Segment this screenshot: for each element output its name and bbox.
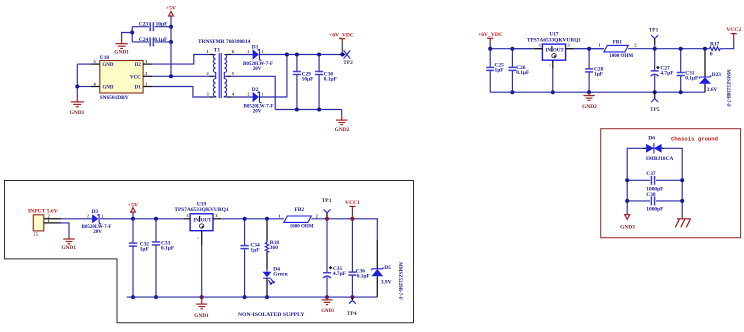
svg-text:OUT: OUT xyxy=(201,219,213,224)
node TP3/C35 xyxy=(325,217,329,221)
ground GND1 (near C23) xyxy=(114,39,129,56)
node C35 bottom xyxy=(325,295,329,299)
node +6V junction xyxy=(340,53,344,57)
svg-text:0.1µF: 0.1µF xyxy=(357,274,371,280)
svg-text:SMBJ18CA: SMBJ18CA xyxy=(646,156,674,162)
node C26 top xyxy=(510,47,514,51)
svg-text:TRNSFMR 760390014: TRNSFMR 760390014 xyxy=(198,39,251,45)
capacitor C33 0.1uF xyxy=(152,219,175,297)
svg-text:10µF: 10µF xyxy=(302,76,314,82)
svg-text:1: 1 xyxy=(262,50,264,54)
node C29 top xyxy=(295,53,299,57)
node C31 bottom xyxy=(679,90,683,94)
svg-text:1000 OHM: 1000 OHM xyxy=(609,54,633,59)
node C26 bottom xyxy=(510,90,514,94)
diode D2 B0520LW-7-F xyxy=(231,55,287,115)
svg-text:0.1µF: 0.1µF xyxy=(154,37,168,43)
svg-text:0.1µF: 0.1µF xyxy=(161,246,175,252)
wire U18 pin1 to T1 pin3 xyxy=(152,87,210,98)
node C28 bottom xyxy=(587,90,591,94)
zener D23 MMSZ5228B-7-F 3.6V xyxy=(699,49,730,107)
capacitor C37 1000pF xyxy=(627,171,682,193)
wire U17 gnd down xyxy=(552,69,554,93)
svg-text:U18: U18 xyxy=(100,55,110,61)
svg-text:TP3: TP3 xyxy=(322,198,332,204)
svg-text:20V: 20V xyxy=(253,67,262,72)
node D23 top xyxy=(703,47,707,51)
capacitor C35 4.7uF polarized xyxy=(323,219,347,297)
pin 3 U19 xyxy=(213,218,221,220)
pin 1 J5 xyxy=(44,222,61,224)
pin 2 U17 gnd xyxy=(552,60,554,68)
node D4 bottom xyxy=(265,295,269,299)
pin 2 U18 xyxy=(143,75,152,77)
svg-text:GND: GND xyxy=(102,86,114,91)
node C27 bottom xyxy=(653,90,657,94)
node link/gnd junction xyxy=(130,31,134,35)
wire FB1 out xyxy=(628,48,709,50)
svg-text:MMSZ5228B-7-F: MMSZ5228B-7-F xyxy=(725,69,730,107)
svg-text:NON-ISOLATED SUPPLY: NON-ISOLATED SUPPLY xyxy=(238,312,305,318)
svg-text:GND3: GND3 xyxy=(620,225,635,231)
svg-text:J5: J5 xyxy=(34,232,39,238)
pin 1 U18 xyxy=(143,86,152,88)
power port +5V (non-isolated) xyxy=(128,203,138,219)
svg-text:Green: Green xyxy=(273,272,287,278)
svg-text:1µF: 1µF xyxy=(140,247,150,253)
node C30 top xyxy=(317,53,321,57)
svg-text:10µF: 10µF xyxy=(156,22,168,28)
resistor R17 0 xyxy=(709,41,720,57)
capacitor C25 1uF xyxy=(486,49,504,92)
wire +5V vertical rail xyxy=(170,16,172,76)
capacitor C30 0.1uF xyxy=(315,55,338,110)
svg-text:TP1: TP1 xyxy=(649,27,659,33)
box outline non-isolated supply xyxy=(5,181,414,323)
pin 1 U17 xyxy=(535,48,543,50)
node R18 top xyxy=(265,217,269,221)
node C33 bottom xyxy=(154,295,158,299)
ground GND2 (rectifier) xyxy=(335,110,350,133)
svg-text:1µF: 1µF xyxy=(594,72,604,78)
ground GND1 (under U18) xyxy=(70,97,85,116)
ground GND1 (under C35) xyxy=(321,297,335,314)
capacitor C23 10uF xyxy=(132,22,171,32)
power port VCC2 xyxy=(726,27,741,41)
node C33 top xyxy=(154,217,158,221)
regulator U17 TPS7A6533QKVURQ1 xyxy=(527,32,582,61)
wire D6 right xyxy=(665,148,683,219)
test point TP4 xyxy=(347,297,357,317)
box chassis ground xyxy=(601,129,741,238)
wire U18 pin3 to T1 pin1 xyxy=(152,55,210,65)
wire FB2 out xyxy=(311,219,377,240)
wire D6 left xyxy=(627,148,643,214)
svg-text:FB2: FB2 xyxy=(295,207,305,213)
resistor R18 360 xyxy=(265,219,279,252)
svg-text:Chassis ground: Chassis ground xyxy=(671,136,718,143)
power port +6V_VDC (input) xyxy=(478,32,503,49)
node U19 gnd xyxy=(200,295,204,299)
capacitor C36 0.1uF xyxy=(348,219,370,297)
capacitor C29 10uF xyxy=(293,55,314,110)
svg-text:GND1: GND1 xyxy=(194,313,209,319)
capacitor C38 1000pF xyxy=(627,192,682,212)
node VCC1/C36 xyxy=(350,217,354,221)
TVS diode D6 SMBJ18CA xyxy=(643,136,673,163)
wire D3 to U19 xyxy=(100,218,184,220)
svg-text:FB1: FB1 xyxy=(613,39,623,45)
node C25 top xyxy=(488,47,492,51)
svg-text:IN: IN xyxy=(193,219,199,224)
svg-text:MMSZ5229B-7-F: MMSZ5229B-7-F xyxy=(397,262,402,300)
node +5V/C23 junction xyxy=(169,25,173,29)
svg-text:3.6V: 3.6V xyxy=(707,87,718,93)
zener D5 3.9V xyxy=(371,240,402,300)
svg-text:20V: 20V xyxy=(93,230,102,235)
svg-text:1µF: 1µF xyxy=(250,248,260,254)
svg-text:C24: C24 xyxy=(139,37,149,43)
node +5V/C32 xyxy=(131,217,135,221)
svg-text:TP4: TP4 xyxy=(347,311,357,317)
svg-text:TPS7A6533QKVURQ1: TPS7A6533QKVURQ1 xyxy=(174,207,229,213)
svg-text:1µF: 1µF xyxy=(495,67,505,73)
svg-text:1: 1 xyxy=(101,215,103,219)
svg-text:TP5: TP5 xyxy=(650,107,660,113)
pin 3 U17 xyxy=(566,48,574,50)
svg-text:TPS7A6533QKVURQ1: TPS7A6533QKVURQ1 xyxy=(527,37,582,43)
LED D4 Green xyxy=(263,252,288,297)
pin 1 U19 xyxy=(184,218,191,220)
svg-text:D1: D1 xyxy=(135,86,142,91)
svg-text:0.1µF: 0.1µF xyxy=(324,76,338,82)
svg-text:R17: R17 xyxy=(710,41,720,47)
wire bottom rail D xyxy=(127,296,378,298)
svg-text:1: 1 xyxy=(262,93,264,97)
wire J5 pin2 to D3 xyxy=(61,218,92,220)
node C37 left xyxy=(625,178,629,182)
capacitor C32 1uF xyxy=(129,219,150,297)
node C30 bottom xyxy=(317,108,321,112)
node C34 bottom xyxy=(243,295,247,299)
wire U17 in xyxy=(512,48,534,50)
svg-text:SN6501DBV: SN6501DBV xyxy=(100,95,129,101)
node D2 riser junction xyxy=(285,53,289,57)
node +5V/C24 junction xyxy=(169,40,173,44)
node C38 right xyxy=(680,199,684,203)
power port VCC1 xyxy=(345,200,360,219)
node C32 bottom xyxy=(131,295,135,299)
pin 2 U19 gnd xyxy=(201,231,203,245)
wire R17 to VCC2 xyxy=(720,41,734,49)
capacitor C31 0.1uF xyxy=(677,49,699,92)
svg-text:0: 0 xyxy=(710,51,713,57)
wire to GND1 xyxy=(122,33,133,40)
capacitor C34 1uF xyxy=(240,219,260,297)
wire center tap T1 pin5 to bottom rail xyxy=(231,76,275,109)
wire bottom rail B xyxy=(490,91,705,93)
svg-text:4.7µF: 4.7µF xyxy=(333,271,347,277)
transformer T1 760390014 xyxy=(198,39,251,98)
svg-text:360: 360 xyxy=(270,245,278,251)
ground GND2 (under U17) xyxy=(582,92,597,110)
ferrite bead FB1 1000 OHM xyxy=(598,39,637,59)
pin 2 J5 xyxy=(44,218,61,220)
svg-text:GND: GND xyxy=(102,63,114,68)
wire U19 gnd down xyxy=(201,245,203,297)
wire U18 pin2 to T1 pin2 xyxy=(152,75,210,77)
node C29 bottom xyxy=(295,108,299,112)
svg-text:D23: D23 xyxy=(712,72,722,78)
svg-text:+6V_VDC: +6V_VDC xyxy=(478,32,503,38)
pin 4 U18 xyxy=(91,86,100,88)
pin 3 U18 xyxy=(143,63,152,65)
svg-text:GND2: GND2 xyxy=(335,127,350,133)
wire C23/C24 left link xyxy=(131,27,133,42)
svg-text:VCC1: VCC1 xyxy=(345,200,360,206)
svg-text:0.1µF: 0.1µF xyxy=(685,76,699,82)
ground GND1 (under J5) xyxy=(61,236,76,251)
svg-text:T1: T1 xyxy=(214,48,221,54)
node U18 gnd junction xyxy=(75,85,79,89)
node C34 top xyxy=(243,217,247,221)
svg-text:1000pF: 1000pF xyxy=(646,206,664,212)
svg-text:VCC2: VCC2 xyxy=(726,27,741,33)
test point TP1 xyxy=(649,27,659,48)
capacitor C26 0.1uF xyxy=(508,49,530,92)
diode D1 B0520LW-7-F xyxy=(231,44,342,71)
capacitor C28 1uF xyxy=(585,49,604,92)
power port +6V_VDC (rectifier out) xyxy=(329,32,354,54)
node VCC junction xyxy=(169,74,173,78)
svg-text:4.7µF: 4.7µF xyxy=(660,71,674,77)
node C37 right xyxy=(680,178,684,182)
ferrite bead FB2 1000 OHM xyxy=(278,207,318,230)
svg-text:TP2: TP2 xyxy=(343,60,353,66)
pin 5 U18 xyxy=(91,63,100,65)
test point TP2 xyxy=(342,50,353,66)
svg-text:GND1: GND1 xyxy=(114,50,129,56)
capacitor C27 4.7uF polarized xyxy=(651,49,675,92)
wire top rail B xyxy=(490,48,604,50)
node TP1/C27 xyxy=(653,47,657,51)
svg-text:D2: D2 xyxy=(135,63,142,68)
svg-text:2: 2 xyxy=(87,215,89,219)
svg-text:1000 OHM: 1000 OHM xyxy=(290,225,314,230)
svg-text:+6V_VDC: +6V_VDC xyxy=(329,32,354,38)
node C31 top xyxy=(679,47,683,51)
svg-text:D5: D5 xyxy=(384,265,391,271)
diode D3 B0520LW-7-F xyxy=(82,209,112,235)
svg-text:D6: D6 xyxy=(648,136,655,142)
wire U17 out xyxy=(574,48,604,50)
test point TP3 xyxy=(322,198,332,219)
node U17 gnd xyxy=(551,90,555,94)
svg-text:2: 2 xyxy=(248,50,250,54)
svg-text:IN: IN xyxy=(546,48,552,53)
ground GND1 (under U19) xyxy=(194,297,209,319)
power port +5V xyxy=(166,6,176,17)
svg-text:INPUT 5.6V: INPUT 5.6V xyxy=(28,208,58,214)
test point TP5 xyxy=(650,92,660,113)
wire J5 pin1 to GND1 xyxy=(61,223,69,236)
svg-text:GND1: GND1 xyxy=(61,245,76,251)
regulator U19 TPS7A6533QKVURQ1 xyxy=(174,201,229,230)
connector J5 xyxy=(33,215,44,238)
wire U18 left pins xyxy=(77,63,91,65)
power port GND3 (arrow down) xyxy=(620,215,635,231)
op-amp U18 SN6501DBV body xyxy=(100,55,144,101)
node C38 left xyxy=(625,199,629,203)
svg-text:GND1: GND1 xyxy=(321,309,335,314)
node C28 top xyxy=(587,47,591,51)
svg-text:20V: 20V xyxy=(253,110,262,115)
svg-text:GND1: GND1 xyxy=(70,110,85,116)
svg-text:3.9V: 3.9V xyxy=(381,280,392,286)
wire bottom rail (rectifier) xyxy=(275,109,342,111)
svg-text:OUT: OUT xyxy=(553,48,565,53)
wire U19 out rail xyxy=(221,218,284,220)
svg-text:0.1µF: 0.1µF xyxy=(516,70,530,76)
svg-text:2: 2 xyxy=(248,93,250,97)
svg-text:D3: D3 xyxy=(92,209,99,215)
capacitor C24 0.1uF xyxy=(132,37,171,47)
svg-text:GND2: GND2 xyxy=(582,104,597,110)
node TP4 xyxy=(350,295,354,299)
svg-text:C23: C23 xyxy=(139,22,149,28)
svg-text:VCC: VCC xyxy=(130,75,141,80)
chassis ground symbol xyxy=(675,219,690,228)
